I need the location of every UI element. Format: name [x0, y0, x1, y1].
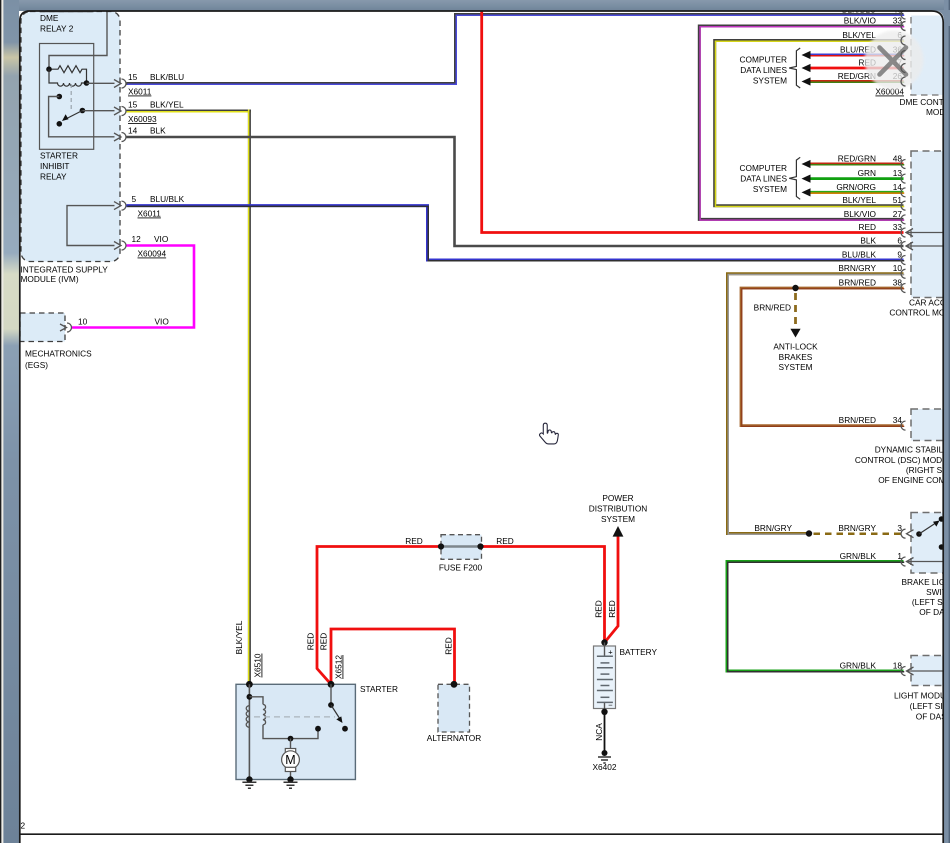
- bracket computer data lines system (middle): [789, 157, 800, 199]
- svg-text:RED: RED: [607, 600, 617, 618]
- pin car access 27: [901, 215, 906, 224]
- svg-text:LIGHT MODULE: LIGHT MODULE: [894, 691, 950, 701]
- svg-text:BRN/RED: BRN/RED: [754, 303, 791, 313]
- svg-text:INHIBIT: INHIBIT: [40, 161, 70, 171]
- wire BRN/GRY car access pin 10 solid run: [728, 274, 905, 534]
- svg-text:BATTERY: BATTERY: [620, 647, 658, 657]
- relay blade with arrowhead: [65, 111, 83, 120]
- svg-text:POWER: POWER: [602, 493, 633, 503]
- wire BLU/BLK from IVM pin 5 to car access pin 9: [127, 206, 905, 261]
- svg-text:BLK: BLK: [150, 126, 166, 136]
- arrow to power distribution system: [613, 526, 624, 537]
- svg-text:10: 10: [78, 317, 88, 327]
- wire BLK/YEL from IVM pin 15 to starter node X6510: [127, 110, 251, 685]
- svg-text:1: 1: [897, 551, 902, 561]
- svg-text:STARTER: STARTER: [360, 684, 398, 694]
- wire GRN/ORG car access pin 14 to data-lines arrow: [809, 191, 904, 195]
- component alternator box: [438, 684, 470, 732]
- pin DME 26: [901, 77, 906, 86]
- motor M1 bottom brush: [285, 767, 295, 771]
- svg-text:DISTRIBUTION: DISTRIBUTION: [589, 504, 648, 514]
- pin DME 36: [901, 51, 906, 60]
- svg-text:BRN/RED: BRN/RED: [839, 277, 876, 287]
- linkage dashed line of relay: [70, 84, 72, 110]
- svg-text:X60093: X60093: [128, 114, 157, 124]
- svg-text:+: +: [608, 648, 613, 657]
- node starter switch pivot: [328, 702, 334, 708]
- module IVM (Integrated Supply Module) box: [21, 12, 120, 262]
- pin 12 VIO connector: [114, 242, 121, 250]
- node starter coil branch: [247, 694, 253, 700]
- arrow GRN into data lines: [802, 175, 811, 183]
- pin DME top (cut label): [901, 10, 906, 19]
- svg-text:27: 27: [893, 209, 903, 219]
- ground symbol starter left: [242, 782, 256, 788]
- motor M1 wire to brush: [290, 739, 292, 749]
- svg-text:12: 12: [132, 234, 142, 244]
- resistor of starter inhibit relay: [49, 66, 87, 83]
- node alternator terminal: [451, 681, 458, 688]
- component fuse F200 box: [441, 535, 482, 560]
- svg-text:SYSTEM: SYSTEM: [753, 184, 787, 194]
- arrow BLU/RED into data lines: [802, 51, 811, 59]
- solenoid coil right winding: [263, 704, 266, 724]
- node battery negative: [601, 709, 607, 715]
- svg-text:BRAKES: BRAKES: [779, 352, 813, 362]
- mouse cursor (hand pointer): [540, 423, 559, 444]
- node battery positive junction: [601, 639, 607, 645]
- solenoid coil left winding: [246, 706, 249, 728]
- node motor top junction: [288, 736, 294, 742]
- wire GRN car access pin 13 to data-lines arrow: [809, 177, 904, 180]
- module mechatronics EGS box: [20, 313, 65, 342]
- svg-text:BLK/VIO: BLK/VIO: [844, 16, 877, 26]
- svg-text:X6510: X6510: [253, 653, 263, 677]
- coil of starter inhibit relay: [49, 69, 87, 86]
- svg-text:6: 6: [897, 235, 902, 245]
- bottom separator line: [20, 833, 943, 835]
- battery plates: [597, 656, 613, 702]
- svg-text:GRN/BLK: GRN/BLK: [840, 551, 877, 561]
- svg-text:BLK/BLU: BLK/BLU: [150, 72, 184, 82]
- svg-text:RED: RED: [306, 633, 316, 651]
- svg-text:15: 15: [128, 100, 138, 110]
- node relay contact upper: [57, 94, 63, 100]
- pin car access 38: [901, 284, 906, 293]
- wire RED/GRN car access pin 48 to data-lines arrow: [809, 163, 904, 167]
- pin light module 18 with arrow: [901, 667, 906, 676]
- chrome corner wedge top-right: [929, 10, 950, 26]
- svg-text:14: 14: [893, 182, 903, 192]
- svg-text:BLK/YEL: BLK/YEL: [842, 30, 876, 40]
- ground symbol X6402: [598, 757, 611, 763]
- svg-text:DYNAMIC STABILITY: DYNAMIC STABILITY: [875, 445, 950, 455]
- node X6512 starter terminal: [328, 681, 335, 688]
- svg-text:15: 15: [128, 72, 138, 82]
- close button X halo: [865, 31, 924, 90]
- battery G1 box: [594, 646, 616, 709]
- wire RED/GRN DME pin 26 to data-lines arrow: [809, 80, 904, 84]
- pin car access 13: [901, 174, 906, 183]
- svg-text:ALTERNATOR: ALTERNATOR: [427, 733, 481, 743]
- svg-text:9: 9: [897, 250, 902, 260]
- wire coil bottom to motor node: [263, 725, 318, 739]
- svg-text:BLK/YEL: BLK/YEL: [842, 195, 876, 205]
- pin 15 BLK/YEL connector: [114, 107, 121, 115]
- svg-text:SYSTEM: SYSTEM: [753, 76, 787, 86]
- svg-text:ANTI-LOCK: ANTI-LOCK: [773, 342, 818, 352]
- motor M1 top brush: [285, 749, 295, 753]
- svg-text:INTEGRATED SUPPLY: INTEGRATED SUPPLY: [21, 265, 109, 275]
- svg-text:MECHATRONICS: MECHATRONICS: [25, 349, 92, 359]
- module DSC module box: [911, 409, 950, 441]
- svg-text:RED: RED: [858, 222, 876, 232]
- wire BLK/YEL from DME pin 6 to car access pin 51: [715, 41, 905, 207]
- module brake light switch box: [911, 513, 950, 574]
- svg-text:RED: RED: [594, 600, 604, 618]
- svg-text:OF ENGINE COMPARTMENT): OF ENGINE COMPARTMENT): [878, 475, 950, 485]
- module Car Access control module box: [911, 151, 950, 298]
- wire relay contact to IVM pin 14 BLK: [49, 97, 115, 137]
- svg-text:BRN/GRY: BRN/GRY: [838, 523, 876, 533]
- arrow RED into data lines: [802, 64, 811, 72]
- svg-text:CONTROL (DSC) MODULE: CONTROL (DSC) MODULE: [855, 455, 950, 465]
- starter switch feed from X6512: [330, 684, 332, 705]
- svg-text:BLK: BLK: [860, 235, 876, 245]
- svg-text:5: 5: [132, 194, 137, 204]
- wire branch to solenoid coil: [249, 697, 263, 705]
- svg-text:10: 10: [893, 263, 903, 273]
- pin DSC 34: [901, 421, 906, 430]
- svg-text:3: 3: [897, 523, 902, 533]
- wire BRN/GRY dashed segment to brake light switch pin 3: [814, 532, 903, 535]
- svg-text:CONTROL MODULE: CONTROL MODULE: [889, 308, 950, 318]
- svg-text:X6011: X6011: [138, 209, 162, 219]
- arrow GRN/ORG into data lines: [802, 188, 811, 196]
- pin brake light switch 1 with arrow: [901, 557, 906, 566]
- pin car access 6 with arrow: [901, 242, 906, 251]
- svg-text:48: 48: [893, 153, 903, 163]
- svg-text:RED: RED: [444, 637, 454, 655]
- svg-text:VIO: VIO: [155, 317, 170, 327]
- wire GRN/BLK brake light pin 1 to light module pin 18: [727, 562, 904, 672]
- node fuse right terminal: [477, 543, 483, 549]
- arrow to anti-lock brakes system: [790, 329, 800, 338]
- svg-text:33: 33: [893, 222, 903, 232]
- pin car access 48: [901, 160, 906, 169]
- motor M1 body: [282, 751, 300, 769]
- svg-text:RELAY 2: RELAY 2: [40, 24, 74, 34]
- svg-text:38: 38: [893, 277, 903, 287]
- module light module box: [911, 656, 950, 686]
- svg-text:COMPUTER: COMPUTER: [740, 163, 787, 173]
- svg-text:X6512: X6512: [334, 655, 344, 679]
- wire RED from top edge to car access pin 33: [482, 11, 904, 233]
- arrow RED/GRN into data lines: [802, 77, 811, 85]
- RIGHT SIDE PIN CONNECTORS: [901, 10, 944, 676]
- pin car access 33 with arrow: [901, 228, 906, 237]
- node junction on BRN/RED wire: [792, 285, 798, 291]
- svg-text:X60094: X60094: [138, 249, 167, 259]
- wire BLK/VIO from DME pin 33 to car access pin 27: [699, 26, 904, 220]
- node relay contact lower: [57, 121, 63, 127]
- svg-text:GRN: GRN: [858, 168, 876, 178]
- battery internal wire top: [604, 643, 606, 712]
- wire coil to IVM pin 15 BLK/BLU: [87, 82, 115, 84]
- pin DME 33: [901, 22, 906, 31]
- svg-text:MODULE (IVM): MODULE (IVM): [21, 274, 79, 284]
- svg-text:(EGS): (EGS): [25, 360, 48, 370]
- pin brake light switch 3 with arrow: [901, 529, 906, 538]
- svg-text:BLU/BLK: BLU/BLK: [842, 250, 877, 260]
- svg-text:FUSE F200: FUSE F200: [439, 563, 483, 573]
- svg-text:RED: RED: [496, 536, 514, 546]
- wire relay blade pivot to IVM pin 15 BLK/YEL: [82, 110, 114, 112]
- node ground X6402: [602, 750, 608, 756]
- relay U1 starter inhibit relay box: [40, 44, 94, 150]
- svg-text:BRN/RED: BRN/RED: [839, 415, 876, 425]
- svg-text:BLU/BLK: BLU/BLK: [150, 194, 185, 204]
- bracket computer data lines system (top): [789, 48, 800, 88]
- svg-text:DATA LINES: DATA LINES: [740, 65, 787, 75]
- node fuse left terminal: [438, 543, 444, 549]
- svg-text:M: M: [285, 753, 295, 767]
- motor M1 wire to ground: [290, 772, 292, 780]
- wire VIO from IVM pin 12 to mechatronics pin 10: [72, 246, 195, 328]
- svg-text:13: 13: [893, 168, 903, 178]
- pin DME 6: [901, 36, 906, 45]
- module DME control module box (top right, cut): [911, 16, 950, 96]
- node resistor-coil left junction: [46, 66, 52, 72]
- pin car access 9: [901, 256, 906, 265]
- svg-text:BLK/YEL: BLK/YEL: [150, 100, 184, 110]
- svg-text:SYSTEM: SYSTEM: [601, 514, 635, 524]
- arrow RED/GRN into data lines: [802, 160, 811, 168]
- wire RED battery positive to power distribution system: [605, 537, 619, 643]
- pin car access 51: [901, 201, 906, 210]
- wire BRN/RED dashed drop to anti-lock brakes system: [794, 293, 797, 327]
- svg-text:BRN/GRY: BRN/GRY: [838, 263, 876, 273]
- svg-text:X6402: X6402: [593, 762, 617, 772]
- pin 10 mechatronics connector: [60, 324, 67, 331]
- wire BLK/BLU from IVM pin 15 to DME top pin: [127, 15, 905, 85]
- node X6510 starter terminal: [246, 681, 253, 688]
- node starter switch contact: [315, 726, 321, 732]
- node relay blade pivot: [80, 108, 86, 114]
- wire BLU/RED DME pin 36 to data-lines arrow: [809, 54, 904, 58]
- pin 5 BLU/BLK connector: [114, 202, 121, 210]
- relay DME RELAY 2 box bottom edge (cut by window top): [40, 11, 94, 13]
- node starter switch throw contact: [342, 726, 348, 732]
- pin car access 14: [901, 188, 906, 197]
- node starter ground left: [246, 776, 252, 782]
- svg-text:BLK/YEL: BLK/YEL: [234, 620, 244, 654]
- node starter ground right: [287, 776, 293, 782]
- wire BRN/RED car access pin 38 to DSC pin 34: [741, 288, 904, 426]
- svg-text:X6011: X6011: [128, 87, 152, 97]
- chrome left bar: [0, 0, 19, 843]
- wire RED fuse to starter X6512: [317, 547, 441, 685]
- starter switch blade with arrowhead: [331, 705, 340, 719]
- svg-text:14: 14: [128, 126, 138, 136]
- pin 15 BLK/BLU connector: [60, 79, 126, 332]
- chrome right bar: [944, 0, 950, 843]
- svg-text:DME: DME: [40, 13, 59, 23]
- fuse element gray link: [441, 545, 481, 547]
- svg-text:VIO: VIO: [154, 234, 169, 244]
- svg-text:STARTER: STARTER: [40, 151, 78, 161]
- pin DME 37: [901, 64, 905, 73]
- pin 14 BLK connector: [114, 133, 121, 141]
- switch inside brake light switch box: [916, 531, 922, 537]
- svg-text:GRN/BLK: GRN/BLK: [840, 661, 877, 671]
- svg-text:GRN/ORG: GRN/ORG: [836, 182, 876, 192]
- wire from DME relay 2 to starter inhibit relay coil: [49, 12, 107, 67]
- DME pin arcs redrawn over halo: [901, 22, 906, 87]
- svg-text:RELAY: RELAY: [40, 172, 67, 182]
- pin car access 10: [901, 269, 906, 278]
- svg-text:RED/GRN: RED/GRN: [838, 153, 876, 163]
- wire RED starter X6512 to alternator: [331, 629, 455, 684]
- wire IVM pin 5 internal bracket: [67, 206, 115, 246]
- svg-text:RED: RED: [405, 536, 423, 546]
- component starter box: [236, 684, 355, 779]
- wire RED DME pin 37 to data-lines arrow: [809, 67, 904, 70]
- wire BLK from IVM pin 14 to car access pin 6: [127, 137, 904, 246]
- svg-text:SYSTEM: SYSTEM: [778, 362, 812, 372]
- svg-text:RED: RED: [319, 633, 329, 651]
- svg-text:51: 51: [893, 195, 903, 205]
- ground symbol starter right: [284, 782, 298, 788]
- svg-text:DATA LINES: DATA LINES: [740, 174, 787, 184]
- node BRN/GRY junction dot: [806, 530, 812, 536]
- chrome top bar: [0, 0, 950, 11]
- wire RED fuse to battery positive: [481, 547, 605, 642]
- svg-text:COMPUTER: COMPUTER: [740, 55, 787, 65]
- svg-text:BRN/GRY: BRN/GRY: [754, 523, 792, 533]
- svg-text:BLK/VIO: BLK/VIO: [844, 209, 877, 219]
- wire NCA battery negative to ground X6402: [604, 712, 606, 753]
- svg-text:18: 18: [893, 661, 903, 671]
- svg-text:2: 2: [21, 821, 26, 831]
- linkage dashed line starter solenoid to switch: [254, 716, 335, 718]
- node coil output to pin 15: [84, 80, 90, 86]
- close button X glyph: [880, 48, 907, 75]
- svg-text:NCA: NCA: [594, 723, 604, 741]
- svg-text:34: 34: [893, 415, 903, 425]
- wire BLK/YEL continuation inside starter to ground: [248, 684, 250, 779]
